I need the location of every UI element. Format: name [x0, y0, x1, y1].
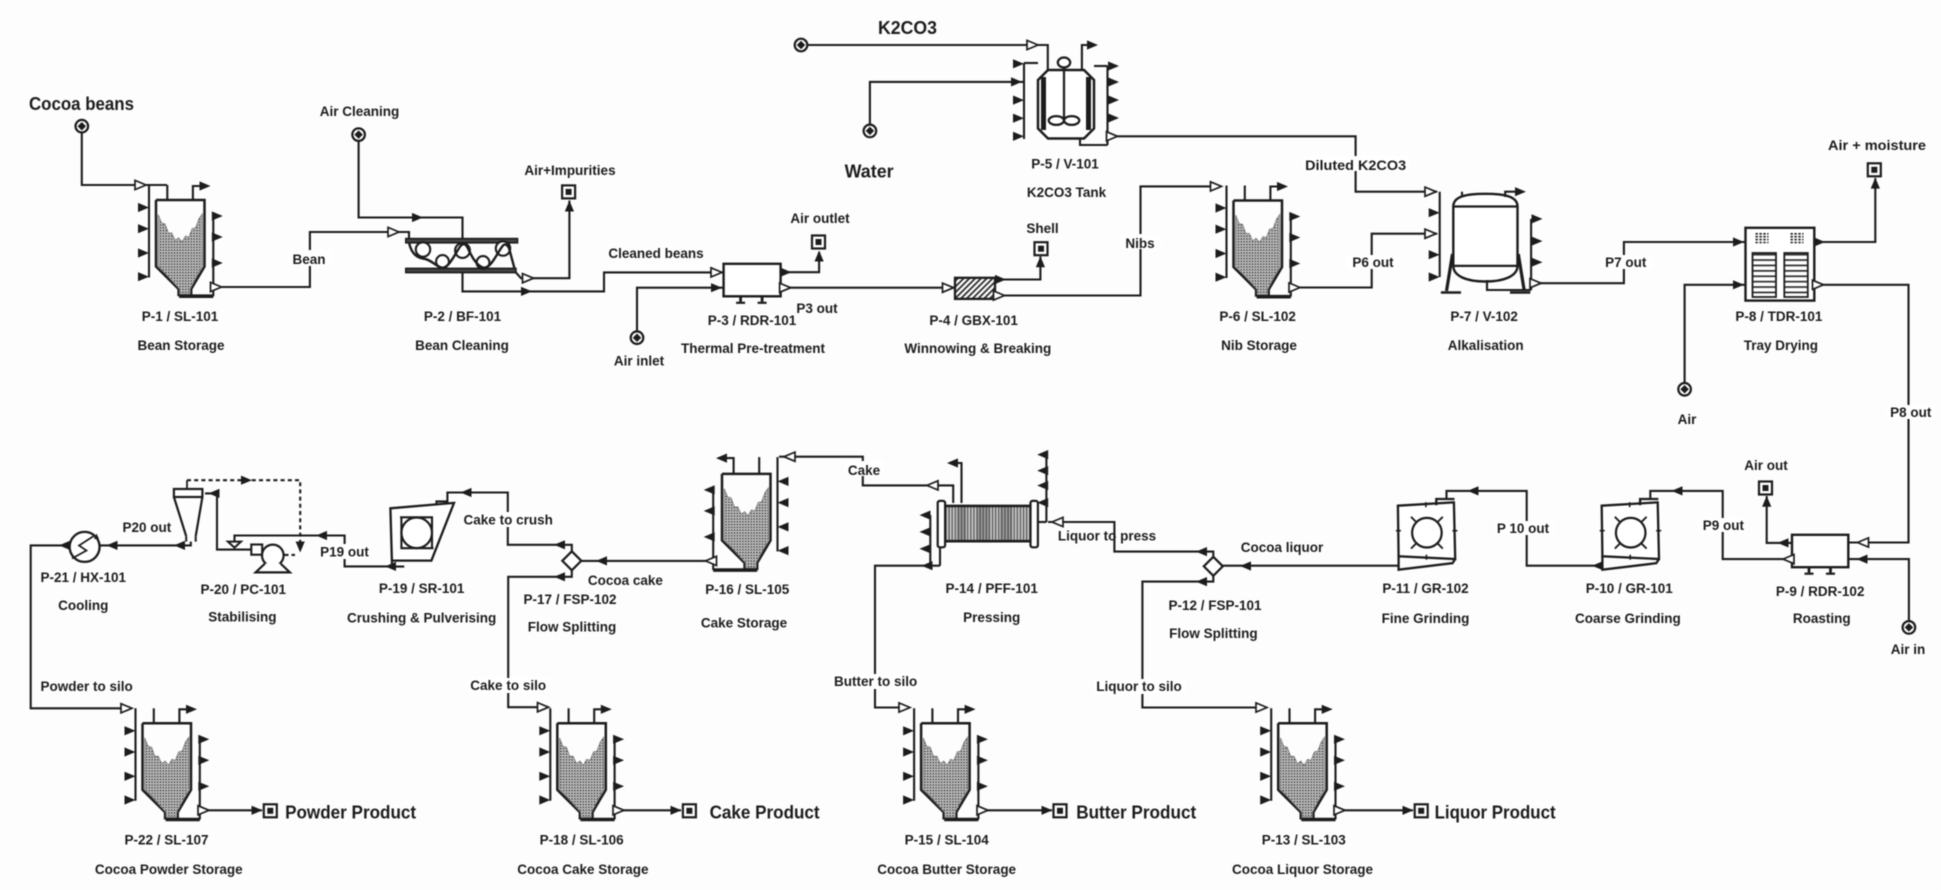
wire Powder Product : P-22 -> sink [198, 806, 263, 815]
svg-text:P 10 out: P 10 out [1497, 521, 1550, 536]
svg-text:P19 out: P19 out [320, 545, 369, 560]
wire Air + moisture : P-8 -> sink [1814, 178, 1880, 247]
wire Cocoa beans -> P-1 [82, 133, 167, 190]
label P-14 / PFF-101 [946, 581, 1039, 596]
svg-text:Liquor to press: Liquor to press [1058, 529, 1156, 544]
svg-text:P-17 / FSP-102: P-17 / FSP-102 [523, 592, 616, 607]
label Butter to silo [834, 674, 917, 689]
unit P-9 / RDR-102 rotary dryer box [1792, 535, 1848, 574]
svg-text:P-11 / GR-102: P-11 / GR-102 [1382, 581, 1468, 596]
svg-text:Pressing: Pressing [963, 610, 1020, 625]
label Air+Impurities [524, 163, 615, 178]
unit P-22 / SL-107 silo [125, 705, 210, 820]
wire Liquor Product : P-13 -> sink [1334, 806, 1414, 815]
svg-text:Air outlet: Air outlet [790, 211, 850, 226]
svg-text:Stabilising: Stabilising [208, 610, 276, 625]
label Cake Product [710, 803, 820, 823]
svg-text:Cocoa Butter Storage: Cocoa Butter Storage [877, 862, 1016, 877]
svg-text:Cake to crush: Cake to crush [464, 513, 553, 528]
svg-text:P-13 / SL-103: P-13 / SL-103 [1262, 833, 1347, 848]
svg-text:P-16 / SL-105: P-16 / SL-105 [705, 582, 790, 597]
svg-text:Cake: Cake [848, 463, 881, 478]
wire Air in -> P-9 [1848, 555, 1909, 622]
svg-text:Air Cleaning: Air Cleaning [320, 104, 400, 119]
label P-12 / FSP-101 [1168, 598, 1262, 613]
svg-text:Butter to silo: Butter to silo [834, 674, 917, 689]
sink Air+Impurities [562, 185, 575, 198]
label Cocoa Cake Storage [517, 862, 649, 877]
label P-10 / GR-101 [1586, 581, 1674, 596]
label P-5 / V-101 [1031, 157, 1099, 172]
svg-text:Cake Storage: Cake Storage [701, 616, 788, 631]
label P9 out [1703, 518, 1745, 533]
wire Cocoa liquor : P-11 -> P-12 [1223, 561, 1399, 570]
unit P-5 / V-101 stirred tank [1013, 40, 1119, 145]
svg-text:P-5 / V-101: P-5 / V-101 [1031, 157, 1099, 172]
svg-text:P-10 / GR-101: P-10 / GR-101 [1586, 581, 1674, 596]
svg-text:P-20 / PC-101: P-20 / PC-101 [201, 582, 287, 597]
svg-text:Cocoa cake: Cocoa cake [588, 573, 664, 588]
wire Shell : P-4 -> sink [995, 256, 1045, 284]
svg-text:Tray Drying: Tray Drying [1744, 338, 1818, 353]
source Water [864, 125, 877, 138]
svg-text:Water: Water [845, 162, 894, 182]
label P20 out [123, 520, 172, 535]
label P-18 / SL-106 [540, 833, 625, 848]
label Cocoa cake [588, 573, 664, 588]
label Winnowing & Breaking [904, 341, 1051, 356]
wire Butter Product : P-15 -> sink [977, 806, 1053, 815]
unit P-8 / TDR-101 tray dryer [1746, 228, 1815, 301]
svg-text:P7 out: P7 out [1605, 255, 1647, 270]
svg-text:Winnowing & Breaking: Winnowing & Breaking [904, 341, 1051, 356]
label P-22 / SL-107 [124, 833, 208, 848]
svg-text:Thermal Pre-treatment: Thermal Pre-treatment [681, 341, 826, 356]
label P-20 / PC-101 [201, 582, 287, 597]
unit P-19 / SR-101 crusher [390, 501, 454, 566]
wire Air out : P-9 -> sink [1762, 496, 1792, 548]
svg-text:Shell: Shell [1026, 221, 1058, 236]
svg-text:P-8 / TDR-101: P-8 / TDR-101 [1735, 309, 1823, 324]
label Tray Drying [1744, 338, 1818, 353]
label Diluted K2CO3 [1305, 158, 1407, 173]
svg-text:K2CO3: K2CO3 [878, 18, 937, 38]
svg-text:Cleaned beans: Cleaned beans [608, 246, 703, 261]
svg-text:P-3 / RDR-101: P-3 / RDR-101 [708, 313, 797, 328]
label Cake [848, 463, 881, 478]
svg-text:Air inlet: Air inlet [614, 354, 665, 369]
svg-text:P-2 / BF-101: P-2 / BF-101 [424, 309, 502, 324]
svg-text:P-14 / PFF-101: P-14 / PFF-101 [946, 581, 1039, 596]
label P-15 / SL-104 [905, 833, 990, 848]
svg-text:Butter Product: Butter Product [1076, 803, 1196, 823]
wire Air Cleaning -> P-2 [359, 141, 463, 238]
label Liquor Product [1435, 803, 1556, 823]
label Cocoa Powder Storage [95, 862, 243, 877]
unit P-12 / FSP-101 flow splitter [1204, 557, 1223, 576]
label Cocoa Butter Storage [877, 862, 1016, 877]
label P-6 / SL-102 [1219, 309, 1296, 324]
svg-text:Cocoa beans: Cocoa beans [29, 93, 134, 114]
svg-text:Bean: Bean [292, 252, 325, 267]
unit P-10 / GR-101 grinder [1600, 499, 1662, 570]
svg-text:Crushing & Pulverising: Crushing & Pulverising [347, 611, 496, 626]
label P-4 / GBX-101 [929, 313, 1018, 328]
svg-text:P20 out: P20 out [123, 520, 172, 535]
svg-text:P-19 / SR-101: P-19 / SR-101 [379, 581, 465, 596]
label Air in [1891, 642, 1926, 657]
wire Nibs : P-4 -> P-6 [994, 182, 1222, 300]
sink Butter Product [1054, 804, 1067, 817]
svg-text:Air: Air [1678, 412, 1698, 427]
label Butter Product [1076, 803, 1196, 823]
source Air in [1903, 621, 1916, 634]
label P-19 / SR-101 [379, 581, 465, 596]
wire P20 out : P-20 -> P-21 [100, 541, 191, 550]
svg-text:Cocoa Powder Storage: Cocoa Powder Storage [95, 862, 243, 877]
label Flow Splitting (P-12) [1169, 626, 1257, 641]
unit P-1 / SL-101 silo [138, 181, 223, 296]
label Bean [292, 252, 325, 267]
svg-text:P-4 / GBX-101: P-4 / GBX-101 [929, 313, 1018, 328]
label Cocoa Liquor Storage [1232, 862, 1374, 877]
svg-text:Cocoa Liquor Storage: Cocoa Liquor Storage [1232, 862, 1374, 877]
wire Cake Product : P-18 -> sink [613, 806, 682, 815]
label Shell [1026, 221, 1058, 236]
label P8 out [1890, 405, 1932, 420]
wire Air -> P-8 [1685, 280, 1746, 383]
label Bean Cleaning [415, 338, 509, 353]
svg-text:Flow Splitting: Flow Splitting [528, 620, 616, 635]
label Cake Storage [701, 616, 788, 631]
label Thermal Pre-treatment [681, 341, 826, 356]
source Air (tray drying) [1678, 383, 1691, 396]
label Roasting [1793, 611, 1851, 626]
label Air inlet [614, 354, 665, 369]
svg-text:P8 out: P8 out [1890, 405, 1932, 420]
label P-2 / BF-101 [424, 309, 502, 324]
wire Cake : P-14 -> P-16 [779, 452, 953, 503]
label Powder to silo [40, 679, 132, 694]
wire Liquor to silo : P-12 -> P-13 [1094, 576, 1267, 712]
svg-text:Cocoa liquor: Cocoa liquor [1241, 540, 1324, 555]
label Alkalisation [1448, 338, 1524, 353]
svg-text:Roasting: Roasting [1793, 611, 1851, 626]
svg-text:Coarse Grinding: Coarse Grinding [1575, 611, 1681, 626]
sink Cake Product [683, 804, 696, 817]
label Cake to crush [464, 513, 553, 528]
svg-text:P-18 / SL-106: P-18 / SL-106 [540, 833, 625, 848]
svg-text:K2CO3 Tank: K2CO3 Tank [1027, 185, 1107, 200]
unit P-14 / PFF-101 filter press [920, 450, 1049, 566]
sink Liquor Product [1415, 804, 1428, 817]
label Cocoa beans [29, 93, 134, 114]
unit P-2 / BF-101 belt cleaner [406, 239, 518, 273]
svg-text:Cake Product: Cake Product [710, 803, 820, 823]
label P-7 / V-102 [1450, 309, 1518, 324]
unit P-6 / SL-102 silo [1216, 182, 1301, 297]
svg-text:Bean Storage: Bean Storage [137, 338, 225, 353]
label P7 out [1605, 255, 1647, 270]
wire Cocoa cake : P-16 -> P-17 [581, 556, 716, 565]
label P-8 / TDR-101 [1735, 309, 1823, 324]
label P-13 / SL-103 [1262, 833, 1347, 848]
wire Diluted K2CO3 : P-5 -> P-7 [1107, 132, 1438, 197]
svg-text:P-21 / HX-101: P-21 / HX-101 [41, 570, 127, 585]
sink Shell [1035, 242, 1048, 255]
wire Air+Impurities : P-2 -> sink [516, 201, 574, 283]
svg-text:Cake to silo: Cake to silo [470, 678, 546, 693]
svg-text:Alkalisation: Alkalisation [1448, 338, 1524, 353]
svg-text:Air out: Air out [1744, 458, 1788, 473]
svg-text:Cocoa Cake Storage: Cocoa Cake Storage [517, 862, 649, 877]
svg-text:P6 out: P6 out [1352, 255, 1394, 270]
label Nib Storage [1221, 338, 1297, 353]
label P-9 / RDR-102 [1776, 584, 1865, 599]
svg-text:P-12 / FSP-101: P-12 / FSP-101 [1168, 598, 1262, 613]
label P-11 / GR-102 [1382, 581, 1468, 596]
wire P7 out : P-7 -> P-8 [1530, 237, 1746, 287]
label Pressing [963, 610, 1020, 625]
label Powder Product [285, 803, 416, 823]
unit P-15 / SL-104 silo [903, 705, 988, 820]
source Air inlet [631, 331, 644, 344]
wire P10 out : P-10 -> P-11 [1447, 486, 1604, 570]
svg-text:P-6 / SL-102: P-6 / SL-102 [1219, 309, 1296, 324]
svg-text:Air + moisture: Air + moisture [1828, 138, 1927, 153]
svg-text:Air in: Air in [1891, 642, 1926, 657]
wire Liquor to press : P-12 -> P-14 [1048, 517, 1213, 556]
wire Air inlet -> P-3 [637, 283, 724, 331]
label Air out [1744, 458, 1788, 473]
sink Air + moisture [1868, 163, 1881, 176]
label P-3 / RDR-101 [708, 313, 797, 328]
label P 10 out [1497, 521, 1550, 536]
label Water [845, 162, 894, 182]
wire P19 out : P-19 -> P-20 [235, 531, 397, 571]
label Air outlet [790, 211, 850, 226]
svg-text:P-1 / SL-101: P-1 / SL-101 [142, 309, 219, 324]
label Coarse Grinding [1575, 611, 1681, 626]
wire Butter to silo : P-14 -> P-15 [832, 561, 940, 712]
wire K2CO3 -> P-5 [807, 40, 1048, 70]
unit P-21 / HX-101 cooler [70, 532, 100, 562]
svg-text:Liquor Product: Liquor Product [1435, 803, 1556, 823]
unit P-11 / GR-102 grinder [1396, 499, 1458, 570]
label Air Cleaning [320, 104, 400, 119]
label Liquor to silo [1096, 679, 1182, 694]
unit P-13 / SL-103 silo [1260, 705, 1345, 820]
unit P-3 / RDR-101 rotary dryer box [724, 264, 781, 303]
label P-16 / SL-105 [705, 582, 790, 597]
svg-text:Powder Product: Powder Product [285, 803, 416, 823]
label Air + moisture [1828, 138, 1927, 153]
wire P3 out : P-3 -> P-4 [780, 283, 955, 292]
wire Bean : P-1 -> P-2 [211, 227, 410, 291]
svg-text:Air+Impurities: Air+Impurities [524, 163, 615, 178]
wire P8 out : P-8 -> P-9 [1813, 280, 1937, 547]
svg-text:Diluted K2CO3: Diluted K2CO3 [1305, 158, 1407, 173]
wire Cake to crush : P-17 -> P-19 [447, 488, 571, 551]
label P-17 / FSP-102 [523, 592, 616, 607]
wire Cake to silo : P-17 -> P-18 [468, 570, 572, 712]
wire Powder to silo : P-21 -> P-22 [31, 541, 132, 713]
svg-text:P-22 / SL-107: P-22 / SL-107 [124, 833, 208, 848]
label Stabilising [208, 610, 276, 625]
svg-text:P-7 / V-102: P-7 / V-102 [1450, 309, 1518, 324]
svg-text:Fine Grinding: Fine Grinding [1382, 611, 1470, 626]
unit P-20 / PC-101 pneumatic conveyor [174, 476, 305, 573]
source K2CO3 [795, 39, 808, 52]
label Nibs [1125, 236, 1154, 251]
svg-text:Nib Storage: Nib Storage [1221, 338, 1297, 353]
label Fine Grinding [1382, 611, 1470, 626]
label P-21 / HX-101 [41, 570, 127, 585]
label Air [1678, 412, 1698, 427]
svg-text:Nibs: Nibs [1125, 236, 1154, 251]
wire Water -> P-5 [870, 77, 1024, 124]
svg-text:P9 out: P9 out [1703, 518, 1745, 533]
sink Air out [1759, 482, 1772, 495]
label Cleaned beans [608, 246, 703, 261]
source Air Cleaning [352, 128, 365, 141]
sink Air outlet [812, 236, 825, 249]
unit P-4 / GBX-101 winnower [955, 278, 995, 299]
label Crushing & Pulverising [347, 611, 496, 626]
wire P6 out : P-6 -> P-7 [1289, 229, 1437, 292]
label P3 out [796, 301, 838, 316]
label Cocoa liquor [1241, 540, 1324, 555]
label P6 out [1352, 255, 1394, 270]
svg-text:Powder to silo: Powder to silo [40, 679, 132, 694]
svg-text:Flow Splitting: Flow Splitting [1169, 626, 1257, 641]
svg-text:Liquor to silo: Liquor to silo [1096, 679, 1182, 694]
source Cocoa beans [76, 120, 89, 133]
label Cake to silo [470, 678, 546, 693]
wire Air outlet : P-3 -> sink [781, 251, 824, 277]
label Liquor to press [1058, 529, 1156, 544]
unit P-18 / SL-106 silo [539, 705, 624, 820]
label Flow Splitting (P-17) [528, 620, 616, 635]
unit P-16 / SL-105 silo (mirrored) [704, 454, 789, 571]
label P19 out [320, 545, 369, 560]
label K2CO3 [878, 18, 937, 38]
label Cooling [58, 598, 108, 613]
svg-text:Bean Cleaning: Bean Cleaning [415, 338, 509, 353]
unit P-17 / FSP-102 flow splitter [562, 551, 581, 570]
unit P-7 / V-102 alkalisation vessel [1429, 187, 1543, 292]
svg-text:Cooling: Cooling [58, 598, 108, 613]
wire P9 out : P-9 -> P-10 [1650, 486, 1794, 563]
sink Powder Product [264, 804, 277, 817]
svg-text:P-15 / SL-104: P-15 / SL-104 [905, 833, 990, 848]
wire Cleaned beans : P-2 -> P-3 [463, 268, 724, 296]
label K2CO3 Tank [1027, 185, 1107, 200]
label Bean Storage [137, 338, 225, 353]
label P-1 / SL-101 [142, 309, 219, 324]
svg-text:P3 out: P3 out [796, 301, 838, 316]
svg-text:P-9 / RDR-102: P-9 / RDR-102 [1776, 584, 1865, 599]
